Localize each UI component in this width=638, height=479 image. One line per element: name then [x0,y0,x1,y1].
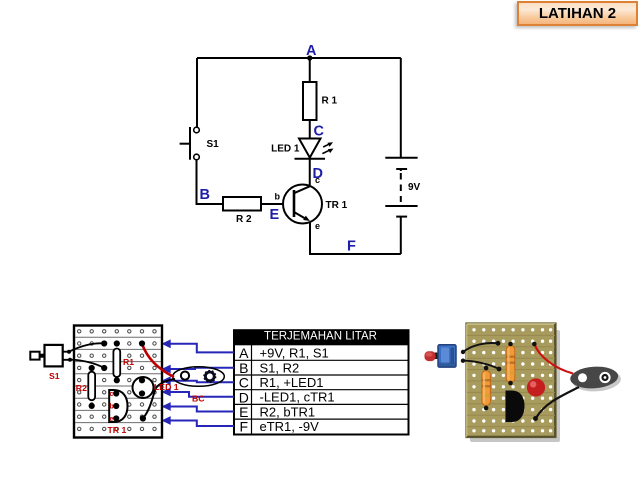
svg-text:D: D [313,166,323,182]
svg-text:E: E [270,207,280,223]
svg-text:R1, +LED1: R1, +LED1 [260,375,324,390]
svg-text:D: D [239,389,249,405]
svg-text:LED 1: LED 1 [154,382,179,392]
svg-text:A: A [239,345,249,361]
svg-text:b: b [275,192,281,202]
svg-text:S1, R2: S1, R2 [260,360,300,375]
svg-text:-LED1, cTR1: -LED1, cTR1 [260,390,335,405]
svg-text:C: C [314,124,325,140]
svg-text:S1: S1 [207,139,220,150]
svg-text:LED 1: LED 1 [271,144,300,155]
svg-text:B: B [200,187,210,203]
svg-text:+9V, R1, S1: +9V, R1, S1 [260,346,329,361]
svg-text:R2: R2 [76,383,87,393]
svg-text:R 1: R 1 [322,96,338,107]
svg-text:F: F [240,419,249,435]
svg-text:9V: 9V [408,182,421,193]
svg-text:TR 1: TR 1 [326,200,348,211]
svg-text:S1: S1 [49,371,60,381]
svg-text:C: C [239,375,249,391]
svg-text:B: B [239,360,248,376]
svg-text:TERJEMAHAN LITAR: TERJEMAHAN LITAR [264,331,377,343]
svg-text:e: e [315,221,320,231]
svg-text:TR 1: TR 1 [108,425,127,435]
svg-text:BC: BC [192,394,205,404]
svg-text:R1: R1 [123,357,134,367]
svg-text:b: b [110,404,114,411]
svg-text:R2, bTR1: R2, bTR1 [260,404,316,419]
svg-text:E: E [239,404,248,420]
svg-text:c: c [110,391,114,398]
svg-text:A: A [306,43,317,59]
svg-text:F: F [347,239,356,255]
svg-text:R 2: R 2 [236,214,252,225]
svg-text:e: e [110,416,114,423]
svg-text:eTR1, -9V: eTR1, -9V [260,419,320,434]
